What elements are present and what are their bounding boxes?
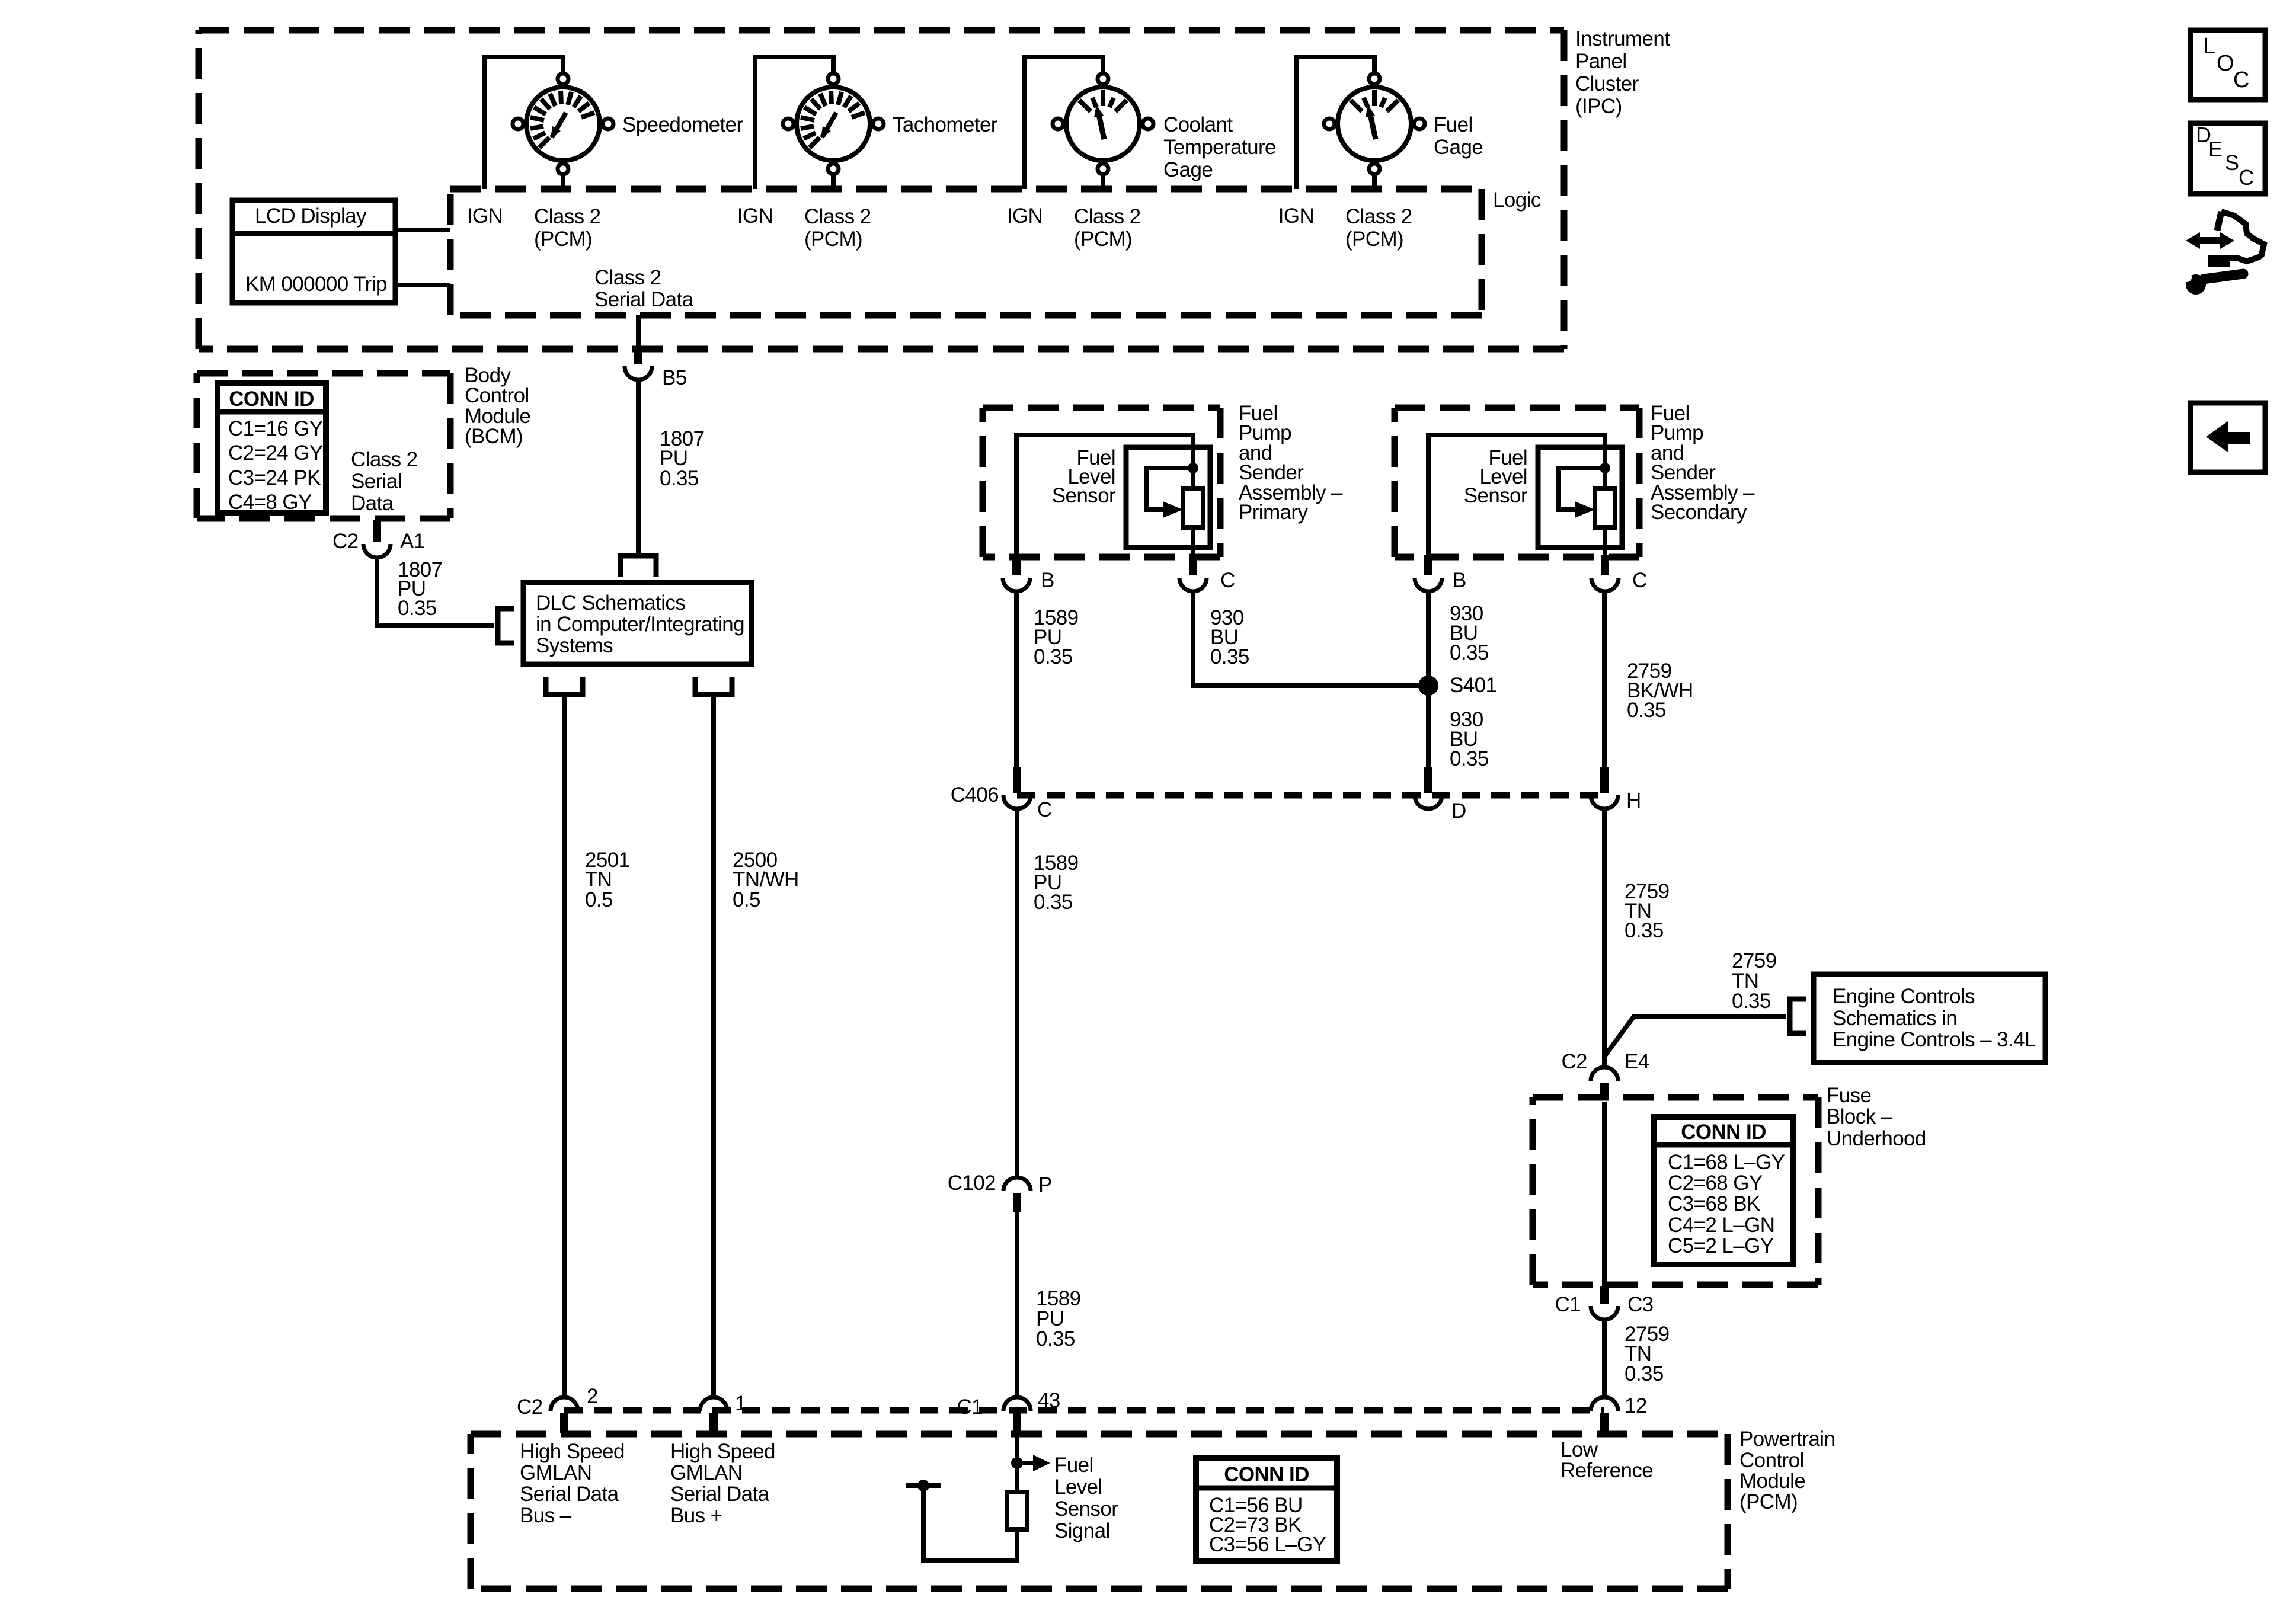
svg-text:IGN: IGN [467,204,503,228]
box: Fuel Pump and Sender Assembly Primary dashed outline [983,405,1220,411]
svg-text:CONN ID: CONN ID [1681,1121,1766,1144]
wire: IGN feed for Coolant Temperature Gage [1025,57,1103,189]
svg-text:C4=8 GY: C4=8 GY [228,491,312,514]
wire: 43 into PCM [1015,1433,1019,1463]
svg-text:Data: Data [351,492,394,515]
wire: IGN feed for Fuel Gage [1296,57,1374,189]
connector: C102 pin P [1003,1177,1031,1191]
wire: 2759 TN C406 H down to E4 [1602,809,1607,1067]
box: Engine Controls Schematics reference [1814,974,2045,1062]
svg-text:C3=24 PK: C3=24 PK [228,466,321,489]
svg-text:S: S [2225,151,2239,175]
svg-text:0.5: 0.5 [733,888,760,911]
svg-text:C: C [2239,165,2253,190]
wire: Class 2 serial data drop from logic box [636,315,641,350]
svg-text:Module: Module [1739,1470,1805,1493]
svg-text:(PCM): (PCM) [804,228,862,251]
svg-text:Class 2: Class 2 [1345,205,1412,228]
svg-text:Sensor: Sensor [1464,484,1528,507]
box: DLC Schematics [523,582,752,664]
svg-text:H: H [1626,789,1641,812]
gauge: Tachometer [783,73,884,174]
svg-text:(PCM): (PCM) [1074,228,1132,251]
svg-text:Secondary: Secondary [1651,501,1747,524]
svg-text:12: 12 [1625,1394,1647,1417]
wire: 2759 BK/WH secondary C to C406 H [1602,591,1607,767]
resistor: PCM internal pull-up [1007,1492,1027,1529]
wire: Class 2 lead below Speedometer [561,175,565,189]
svg-text:Control: Control [465,384,529,407]
wire: 1807 PU from BCM A1 to DLC schematics [377,558,494,626]
svg-text:Tachometer: Tachometer [893,113,998,136]
icon: LOC button [2191,30,2265,100]
svg-text:L: L [2203,34,2215,59]
wire: Class 2 lead below Coolant Temperature Gage [1101,175,1105,189]
table: fuse block CONN ID box [1654,1117,1793,1265]
svg-text:S401: S401 [1450,674,1496,697]
svg-text:Schematics in: Schematics in [1833,1007,1957,1030]
svg-text:1: 1 [735,1392,746,1415]
resistor: fuel level sender element (Secondary) [1595,488,1615,527]
svg-text:CONN ID: CONN ID [1224,1463,1309,1486]
svg-text:0.35: 0.35 [660,467,699,490]
svg-text:Fuel: Fuel [1054,1454,1093,1477]
svg-text:Serial Data: Serial Data [520,1483,619,1506]
svg-text:C406: C406 [951,783,999,806]
svg-text:B: B [1453,569,1466,592]
svg-text:Fuel: Fuel [1434,113,1473,136]
divider: LCD Display box [232,231,395,236]
svg-text:Logic: Logic [1493,188,1541,212]
svg-text:(IPC): (IPC) [1575,95,1622,118]
connector: pin B (Primary) [1012,555,1021,575]
svg-text:2: 2 [587,1385,598,1408]
svg-text:Block –: Block – [1827,1105,1893,1128]
svg-text:High Speed: High Speed [520,1440,625,1463]
svg-text:(PCM): (PCM) [534,228,592,251]
svg-text:IGN: IGN [737,204,773,228]
svg-text:Instrument: Instrument [1575,27,1670,50]
gauge: Fuel Gage [1324,73,1425,174]
svg-text:DLC Schematics: DLC Schematics [536,591,685,614]
wire: 2501 TN GMLAN bus - [562,697,567,1397]
box: Fuel Pump and Sender Assembly Secondary dashed outline [1395,405,1639,411]
svg-text:C2: C2 [517,1395,543,1419]
node: wiper junction dot (Primary) [1188,463,1198,473]
svg-text:C102: C102 [948,1172,996,1195]
svg-text:B: B [1041,569,1054,592]
icon: vehicle with arrow and wrench [2217,212,2221,231]
connector: pin B (Secondary) [1424,555,1432,575]
svg-text:0.35: 0.35 [1034,891,1073,914]
connector: C2 pin 2 at PCM [551,1397,578,1411]
connector: pin 1 at PCM [700,1397,727,1411]
svg-text:0.35: 0.35 [1036,1327,1075,1350]
svg-text:0.35: 0.35 [1034,645,1073,668]
svg-text:Class 2: Class 2 [804,205,871,228]
svg-text:Class 2: Class 2 [534,205,601,228]
wire: wiper arm (Primary) [1147,468,1193,510]
bus: PCM connector dashed line [564,1407,1604,1414]
connector: C1 pin 43 at PCM [1003,1397,1031,1411]
terminal bracket: DLC left [498,609,514,643]
svg-text:Systems: Systems [536,634,613,657]
box: Powertrain Control Module (PCM) dashed outline [471,1431,1728,1438]
svg-text:B5: B5 [662,366,687,389]
wire: junction to internal resistor [1015,1463,1019,1496]
svg-text:Primary: Primary [1239,501,1308,524]
svg-text:E4: E4 [1625,1050,1649,1073]
svg-text:C4=2 L–GN: C4=2 L–GN [1668,1214,1774,1237]
svg-text:Temperature: Temperature [1163,136,1276,159]
terminal bracket: DLC top [621,556,656,577]
connector: C406 pin D [1424,767,1432,793]
svg-text:C2: C2 [332,530,359,553]
svg-text:C1=16 GY: C1=16 GY [228,417,323,440]
svg-text:0.35: 0.35 [1627,699,1666,722]
connector: C1 C3 at fuse block bottom [1600,1286,1609,1304]
svg-text:Serial: Serial [351,470,402,493]
svg-text:Fuse: Fuse [1827,1084,1871,1107]
svg-text:Low: Low [1560,1438,1598,1461]
svg-text:C2=68 GY: C2=68 GY [1668,1172,1763,1195]
svg-text:Coolant: Coolant [1163,113,1233,136]
svg-text:Gage: Gage [1163,158,1213,181]
connector: C2 A1 at BCM [373,520,381,542]
box: Instrument Panel Cluster (IPC) dashed outline [199,27,1564,34]
svg-text:D: D [1451,799,1466,822]
wire: LCD Display to logic (lower) [395,283,450,287]
svg-text:C2=24 GY: C2=24 GY [228,441,323,465]
table: BCM CONN ID box [218,383,326,513]
svg-text:in Computer/Integrating: in Computer/Integrating [536,613,744,636]
box: fuel level sensor frame (Secondary) [1538,447,1622,548]
gauge: Speedometer [513,73,613,174]
svg-text:(BCM): (BCM) [465,425,523,448]
table: PCM CONN ID box [1196,1458,1337,1561]
connector: C406 pin H [1600,767,1609,793]
wire: 1589 PU C406 to C102 [1015,809,1019,1177]
svg-text:Engine Controls – 3.4L: Engine Controls – 3.4L [1833,1028,2036,1051]
box: Body Control Module (BCM) dashed outline [197,370,450,377]
wire: Class 2 lead below Fuel Gage [1372,175,1377,189]
svg-text:Bus +: Bus + [670,1504,722,1527]
svg-text:0.35: 0.35 [1732,990,1771,1013]
wire: 1807 PU from B5 to DLC [636,380,641,556]
svg-text:Serial Data: Serial Data [594,288,694,311]
svg-text:GMLAN: GMLAN [670,1461,742,1484]
wire: resistor to internal reference [923,1486,1017,1561]
svg-text:(PCM): (PCM) [1345,228,1403,251]
svg-text:IGN: IGN [1007,204,1043,228]
svg-text:Class 2: Class 2 [594,266,661,289]
wire: sender element to pin C (Secondary) [1603,468,1607,488]
svg-text:Speedometer: Speedometer [622,113,743,136]
wire: sensor supply loop (Secondary) [1428,435,1605,555]
svg-text:Control: Control [1739,1449,1804,1472]
svg-text:C: C [1632,569,1647,592]
svg-text:C: C [1220,569,1235,592]
box: Fuse Block Underhood dashed outline [1533,1094,1818,1101]
svg-text:CONN ID: CONN ID [229,388,314,411]
gauge: Coolant Temperature Gage [1053,73,1153,174]
svg-text:0.5: 0.5 [585,888,613,911]
wire: 2500 TN/WH GMLAN bus + [711,697,716,1397]
svg-text:C1=68 L–GY: C1=68 L–GY [1668,1151,1785,1174]
svg-text:C3=56 L–GY: C3=56 L–GY [1209,1533,1326,1556]
box: LCD Display [232,200,395,303]
svg-text:Cluster: Cluster [1575,72,1639,95]
svg-text:Underhood: Underhood [1827,1127,1926,1150]
svg-text:C3: C3 [1627,1293,1654,1316]
wire: sensor supply loop (Primary) [1016,435,1193,555]
connector: C2 E4 at fuse block [1591,1067,1618,1081]
svg-text:IGN: IGN [1278,204,1314,228]
wire: sender element to pin C (Primary) [1191,468,1195,488]
connector: B5 at IPC [634,350,642,364]
terminal bracket: engine controls [1790,999,1806,1033]
svg-text:0.35: 0.35 [398,597,437,620]
icon: back arrow button [2191,403,2265,472]
svg-text:C2: C2 [1561,1050,1587,1073]
svg-text:P: P [1038,1173,1052,1196]
node: fuel level sensor signal junction [1011,1457,1023,1469]
svg-text:0.35: 0.35 [1625,919,1664,942]
bus: C406 inline connector dashed line [1017,792,1604,799]
svg-text:Serial Data: Serial Data [670,1483,770,1506]
svg-text:High Speed: High Speed [670,1440,775,1463]
resistor: fuel level sender element (Primary) [1183,488,1203,527]
svg-text:Bus –: Bus – [520,1504,572,1527]
arrow: fuel level sensor signal [1017,1461,1033,1465]
wire: branch to engine controls [1604,1016,1786,1057]
wire: 930 BU primary C to S401 [1193,591,1421,686]
wire: 2759 TN through fuse block [1602,1102,1607,1286]
connector: C406 pin C [1013,767,1021,793]
node: wiper junction dot (Secondary) [1600,463,1610,473]
svg-text:GMLAN: GMLAN [520,1461,591,1484]
svg-text:Signal: Signal [1054,1519,1110,1542]
svg-text:Class 2: Class 2 [1074,205,1141,228]
svg-text:Class 2: Class 2 [351,448,418,471]
svg-text:0.35: 0.35 [1450,641,1489,664]
wire: Class 2 lead below Tachometer [831,175,836,189]
svg-text:Reference: Reference [1560,1459,1653,1482]
svg-text:Powertrain: Powertrain [1739,1427,1835,1451]
box: IPC Logic dashed outline [450,186,1482,193]
svg-text:KM 000000 Trip: KM 000000 Trip [245,273,387,296]
wire: IGN feed for Speedometer [485,57,563,189]
svg-text:(PCM): (PCM) [1739,1490,1798,1513]
svg-text:0.35: 0.35 [1450,747,1489,770]
wire: 930 BU secondary B to S401 [1426,591,1431,686]
connector: pin C (Secondary) [1601,555,1609,575]
wire: IGN feed for Tachometer [755,57,833,189]
svg-text:C5=2 L–GY: C5=2 L–GY [1668,1234,1774,1257]
svg-text:C1: C1 [957,1395,983,1419]
wire: 2759 TN C3 to PCM 12 [1602,1320,1607,1397]
svg-text:Engine Controls: Engine Controls [1833,985,1975,1008]
wire: 930 BU S401 to C406 D [1426,686,1431,767]
svg-text:O: O [2217,51,2234,76]
terminal bracket: DLC bottom left [546,677,583,694]
svg-text:Gage: Gage [1434,136,1483,159]
node: splice S401 [1418,676,1438,696]
svg-text:43: 43 [1038,1389,1060,1412]
wire: 1589 PU primary B to C406 [1014,591,1019,767]
terminal bracket: DLC bottom right [695,677,732,694]
svg-text:A1: A1 [400,530,425,553]
svg-text:LCD Display: LCD Display [255,204,367,228]
svg-text:C1: C1 [1555,1293,1581,1316]
connector: pin 12 at PCM [1591,1397,1618,1411]
svg-text:C: C [1037,798,1052,821]
box: fuel level sensor frame (Primary) [1126,447,1210,548]
icon: DESC button [2191,123,2265,194]
svg-text:Panel: Panel [1575,50,1627,73]
svg-text:0.35: 0.35 [1625,1362,1664,1385]
node: internal reference dot [917,1480,929,1491]
svg-text:Sensor: Sensor [1052,484,1116,507]
connector: pin C (Primary) [1189,555,1197,575]
svg-text:0.35: 0.35 [1210,645,1249,668]
svg-text:Sensor: Sensor [1054,1497,1118,1521]
svg-text:C3=68 BK: C3=68 BK [1668,1192,1760,1215]
svg-text:E: E [2208,137,2222,161]
wire: LCD Display to logic (upper) [395,228,450,232]
wire: wiper arm (Secondary) [1559,468,1605,510]
svg-text:Level: Level [1054,1475,1102,1499]
wire: internal reference stub [906,1483,941,1488]
wire: 1589 PU C102 to PCM 43 [1015,1212,1019,1397]
svg-text:C: C [2233,68,2249,92]
